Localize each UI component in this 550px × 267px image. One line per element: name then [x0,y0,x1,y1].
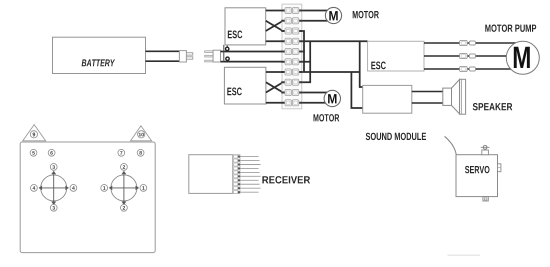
wire strip row4 to ESC U3 [300,40,368,42]
wire ESC U2 to strip row10 [266,102,283,104]
harness female connector [205,50,221,62]
wire bus vertical2 rows4-6-8 [300,41,310,82]
receiver wire 8 [240,183,259,185]
stick right label 2 top [121,164,128,171]
wire strip row9 to motor M2 [300,92,330,94]
wire strip row1 to motor M1 [300,10,330,12]
receiver RX1 [189,155,261,194]
receiver wire 4 [240,167,258,169]
motor M1 [325,7,341,23]
servo bottom tab [483,197,488,201]
junction ring on positive wire [226,47,229,50]
wire strip row5 stub [300,51,305,53]
receiver pin 6 [234,175,240,178]
label RECEIVER [262,176,310,183]
wire to sound module lower input [351,72,362,108]
stick left label 3 bottom [50,204,57,211]
wire battery positive to strip row5 [221,51,284,53]
motor M2 [324,90,340,106]
bullet connector pair P2 [460,53,476,58]
switch button 8 [137,149,144,156]
connector pair row9 [281,89,302,95]
stick right label 1 right [140,185,147,192]
label SPEAKER [473,103,513,110]
receiver pin 7 [234,179,240,182]
connector pair row4 [281,38,302,44]
wire strip row7 bus to sound module column [300,71,360,73]
stick left label 4 left [31,185,38,192]
receiver wire 3 [240,164,260,166]
bullet connector pair P1 [460,40,476,45]
antenna mount right (10) [131,126,152,141]
sound module [363,85,412,113]
wire ESC U1 cross a [266,21,283,31]
wire strip row3 bus vertical [300,31,304,72]
connector pair row1 [281,7,302,13]
connector pair row10 [281,100,302,106]
receiver wire 10 [240,191,258,193]
stick left label 4 right [70,185,77,192]
receiver wire 9 [240,187,260,189]
connector pair row7 [281,69,302,75]
connector pair row2 [281,18,302,24]
stick right label 1 left [101,185,108,192]
receiver pin 2 [234,159,240,162]
switch button 5 [30,149,37,156]
battery [53,37,146,73]
wire ESC U1 cross b [266,21,283,31]
servo S1 [456,155,498,197]
wire ESC U1 to strip row1 [266,10,283,12]
battery male connector plug [179,51,192,62]
receiver pin 8 [234,183,240,186]
receiver wire 7 [240,179,258,181]
label MOTOR (top) [353,11,379,18]
receiver pin 4 [234,167,240,170]
stick right label 2 bottom [121,204,128,211]
control stick right [109,171,139,205]
op ESC U2 (left bottom) [224,67,266,104]
transmitter case [20,142,155,253]
servo top mount screw [481,145,490,154]
receiver pin 3 [234,163,240,166]
wire ESC U2 cross b [266,82,283,92]
servo wire [445,136,457,154]
receiver pin 1 [234,155,240,158]
wire battery negative to strip row6 [221,61,284,63]
switch button 6 [48,149,55,156]
wire strip row10 to motor M2 [300,102,330,104]
stick left label 3 top [50,164,57,171]
wire strip row6 stub [300,61,310,63]
connector pair row8 [281,79,302,85]
wire sound module to speaker b [412,102,443,104]
receiver wire 6 [240,175,260,177]
speaker LS1 [443,79,466,114]
switch button 7 [118,149,125,156]
control stick left [39,171,69,205]
bullet connector pair P3 [460,66,476,71]
connector pair row3 [281,28,302,34]
receiver pin 9 [234,187,240,190]
connector pair row5 [281,48,302,54]
battery cable [146,51,180,62]
connector strip J1 [281,4,302,109]
label MOTOR PUMP [485,25,536,32]
wire strip row2 to motor M1 [300,20,330,22]
servo right tab [498,164,501,172]
faint divider artifact [448,254,481,256]
receiver pin 10 [234,191,240,194]
receiver wire 1 [240,156,258,158]
label MOTOR (bottom) [314,114,340,121]
receiver wire 5 [240,171,259,173]
junction ring on negative wire [226,57,229,60]
op ESC U3 (right) [368,41,424,71]
wire ESC L1 power drop [223,45,225,62]
motor pump M3 [506,41,539,74]
connector pair row6 [281,59,302,65]
wire ESC U2 to strip row7 [266,71,283,73]
wire ESC U2 cross a [266,82,283,92]
receiver wire 2 [240,160,259,162]
wires ESC U3 to motor pump [424,43,516,69]
label SOUND MODULE [366,133,426,140]
wire to sound module upper input [360,41,363,87]
op ESC U1 (left top) [225,8,266,45]
wire sound module to speaker a [412,91,443,93]
wire ESC U1 to strip row4 [266,40,283,42]
receiver pin 5 [234,171,240,174]
antenna mount left (9) [23,125,46,141]
